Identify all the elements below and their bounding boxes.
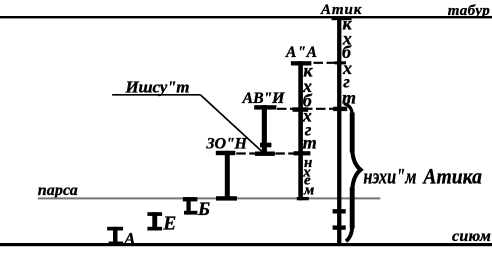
А"А column interval labels к х б х г т н х е м <box>302 60 317 152</box>
wire dashed level line АВ"И to Атик column <box>277 108 334 110</box>
svg-text:парса: парса <box>38 182 78 199</box>
main column interval labels к х б х г т <box>342 14 356 108</box>
svg-text:м: м <box>303 182 314 198</box>
svg-text:Б: Б <box>197 199 210 220</box>
svg-text:т: т <box>303 132 317 152</box>
А"А column lower interval labels н х е м <box>302 155 314 199</box>
svg-text:нэхи"м: нэхи"м <box>363 163 416 188</box>
node ЗО"Н column <box>216 151 237 201</box>
brace нэхи"м Атика <box>344 104 361 242</box>
svg-text:АВ"И: АВ"И <box>242 90 286 107</box>
wire top horizontal line (табур level) <box>0 16 492 18</box>
wire парса horizontal grey line <box>38 197 381 199</box>
wire Ишсу"т leader underline <box>112 94 200 96</box>
svg-text:Е: Е <box>162 213 176 234</box>
svg-text:А: А <box>123 229 135 248</box>
svg-text:Ишсу"т: Ишсу"т <box>125 78 190 97</box>
wire bottom horizontal line (сиюм level) <box>0 243 492 246</box>
wire dashed level line А"А to Атик column <box>314 62 336 64</box>
wire dashed level line ЗО"Н to А"А column <box>236 152 294 154</box>
node А"А column <box>291 61 312 200</box>
node Атик main column <box>332 16 352 244</box>
svg-text:А"А: А"А <box>285 44 317 61</box>
svg-text:Атика: Атика <box>422 163 482 188</box>
node А column <box>107 227 123 245</box>
svg-text:Атик: Атик <box>320 2 362 18</box>
svg-text:сиюм: сиюм <box>452 228 491 245</box>
node Е column <box>147 212 162 230</box>
node Б column <box>183 197 198 215</box>
svg-text:ЗО"Н: ЗО"Н <box>206 136 248 153</box>
node АВ"И column <box>254 105 276 156</box>
wire Ишсу"т leader diagonal to АВ"И column <box>200 95 262 152</box>
